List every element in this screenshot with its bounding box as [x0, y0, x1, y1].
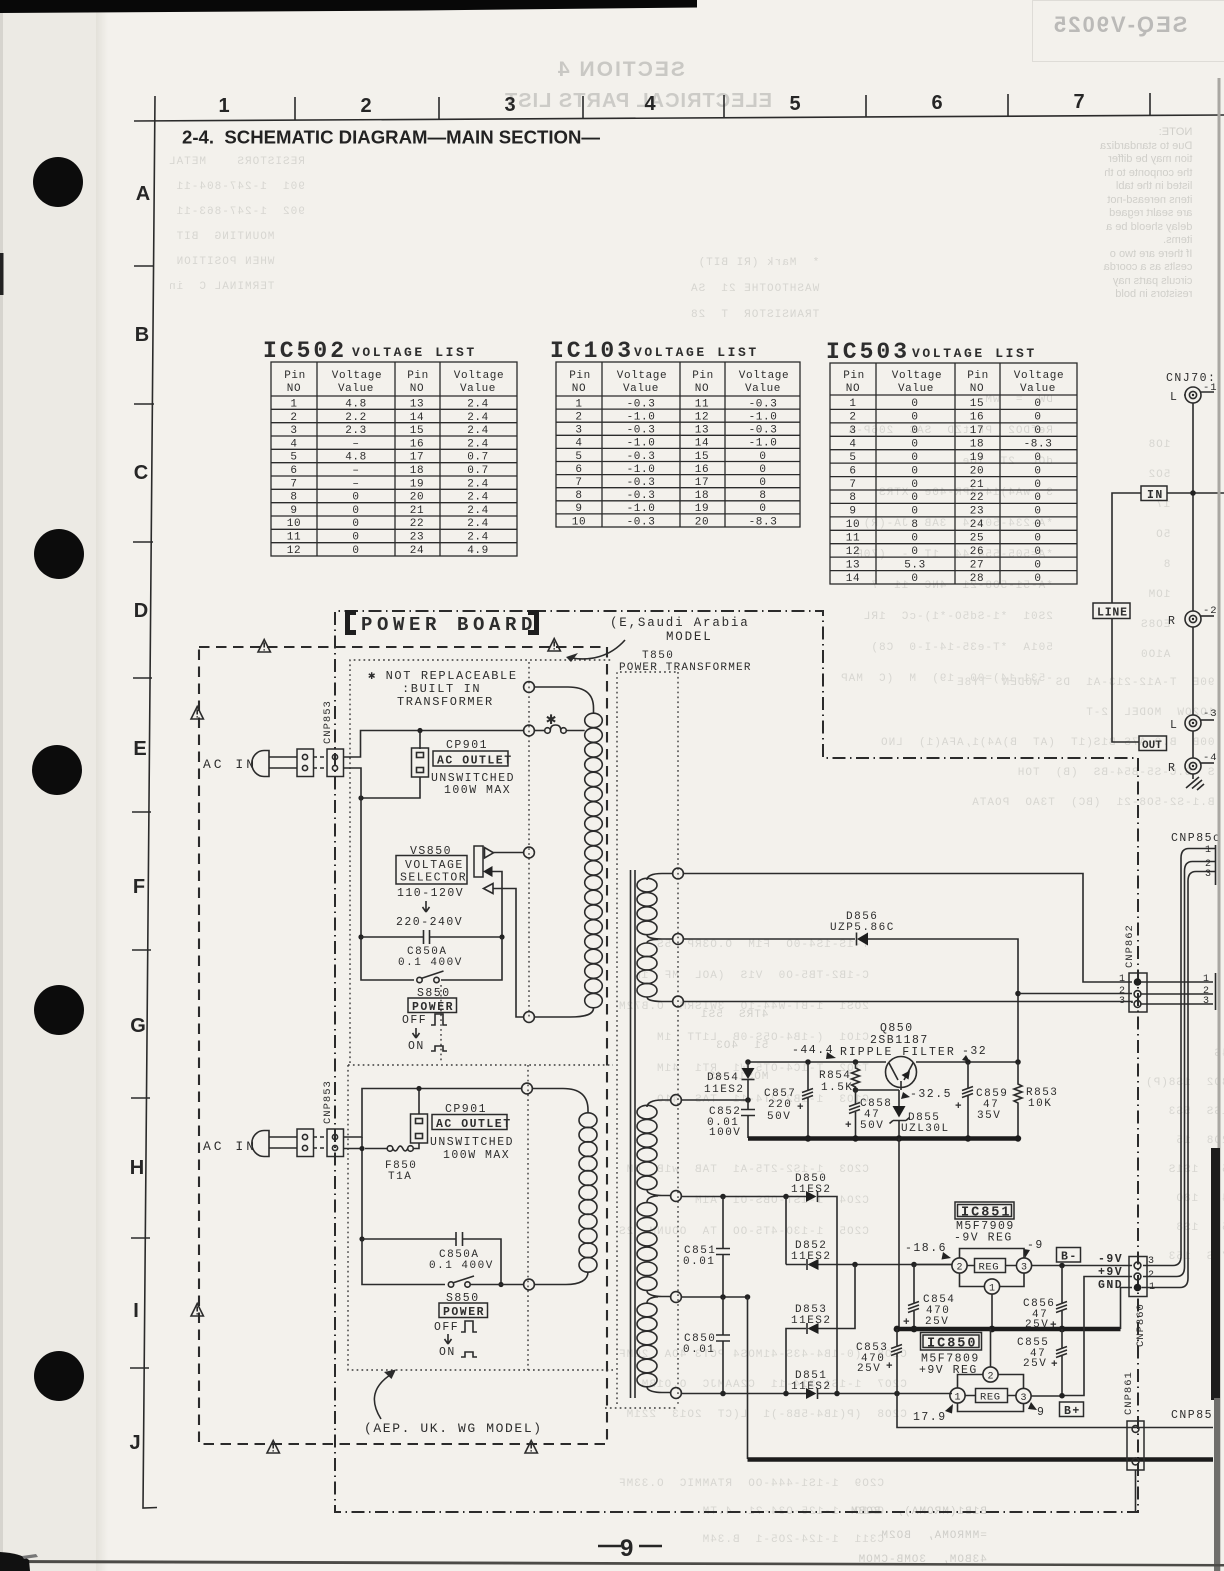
- node junctions on -32 bus: [805, 1135, 811, 1141]
- wire secondary lower tap4 rail (+17.9): [682, 1393, 953, 1395]
- wire centre tap to heavy return: [747, 1297, 749, 1459]
- connector CNP853 upper: [327, 749, 344, 777]
- thermal fuse in primary: [535, 725, 585, 733]
- regulator IC850: [950, 1329, 1031, 1412]
- terminal secondary lower 3: [671, 1292, 682, 1303]
- node OUT box: [1139, 736, 1167, 752]
- wire -44.4 rail: [748, 1061, 1018, 1063]
- node junction C855 bottom: [1059, 1393, 1065, 1399]
- terminal secondary lower 2: [671, 1191, 682, 1202]
- node junction C856 top: [1059, 1263, 1065, 1269]
- outlet CP901 lower: [411, 1114, 428, 1143]
- dotted terminal line secondary: [677, 672, 679, 1404]
- transformer secondary winding lower: [637, 1100, 672, 1393]
- transformer core: [631, 870, 636, 1398]
- dotted terminal line lower primary: [527, 1065, 529, 1370]
- power board dash-dot boundary: [335, 611, 1138, 1512]
- connector CNP853 lower: [327, 1129, 344, 1157]
- node junction on jack bus: [1190, 490, 1196, 496]
- capacitor C852: [707, 1100, 755, 1139]
- zener diode D855: [890, 1106, 910, 1138]
- terminal secondary lower 4: [671, 1388, 682, 1399]
- transformer secondary winding upper: [637, 874, 673, 1002]
- wire gnd riser to CNP860 pin1: [1121, 1288, 1133, 1330]
- resistor R854: [852, 1062, 860, 1090]
- leader arrow to E Saudi box: [572, 640, 625, 659]
- transformer T850 primary winding (E Saudi): [535, 687, 603, 1017]
- node junction centre tap drop: [745, 1294, 751, 1300]
- wire L2 upper: CNP853 pin2 down: [343, 768, 361, 937]
- connector CNP862: [1129, 973, 1147, 1012]
- grid frame left rule: [143, 96, 157, 1508]
- left edge sliver: [0, 253, 4, 295]
- wire L1 lower: CNP853 pin1 up to transformer: [343, 1089, 522, 1138]
- transformer T850 dotted box: [605, 672, 677, 1408]
- switch S850 lower: [448, 1276, 474, 1287]
- node junction -32 corner: [1015, 1059, 1021, 1065]
- terminal secondary upper 2: [673, 934, 684, 945]
- ground bus regulators: [897, 1327, 1121, 1331]
- terminal upper primary 4: [524, 1012, 535, 1023]
- scanner top black strip: [0, 0, 697, 13]
- wire L2 lower with fuse tail: [343, 1137, 387, 1239]
- leader arrow to AEP box: [374, 1375, 390, 1419]
- node junction -32: [965, 1059, 971, 1065]
- AC plug lower: [252, 1131, 297, 1157]
- punch hole 4: [34, 985, 84, 1035]
- arrow -32: [962, 1055, 970, 1062]
- wire secondary centre tap rail: [682, 1296, 749, 1298]
- regulator IC851: [952, 1249, 1032, 1330]
- label AC OUTLET boxed upper: [433, 751, 513, 768]
- transistor Q850: [886, 1057, 917, 1091]
- wire tap to D854 node: [682, 1099, 749, 1101]
- capacitor C856: [1023, 1266, 1067, 1333]
- node junction C850A right upper: [499, 934, 504, 939]
- grid column numbers: [218, 91, 1084, 117]
- bottom page edge: [0, 1560, 1224, 1567]
- outer dashed boundary (AC mains area): [199, 647, 607, 1444]
- node junction fuse branch lower: [359, 1146, 364, 1151]
- E Saudi Arabia model dotted box: [350, 660, 613, 1063]
- arrow 9 out: [1028, 1402, 1037, 1410]
- resistor R853: [1014, 1062, 1022, 1136]
- diode D850: [806, 1191, 818, 1202]
- label POWER boxed lower: [439, 1303, 488, 1319]
- diode D851: [806, 1388, 818, 1399]
- jack R line in: [1168, 605, 1218, 628]
- node junction C850 bottom: [720, 1391, 726, 1397]
- terminal secondary upper 1: [673, 868, 684, 879]
- node junction CP901 return upper: [358, 795, 363, 800]
- capacitor C853: [856, 1329, 902, 1394]
- node junction C853 bottom: [894, 1391, 900, 1397]
- connector CNP850 edge stub: [1215, 845, 1217, 885]
- wire secondary tap1 to CNP862 pin1: [684, 874, 1133, 983]
- node junction C851 top: [720, 1194, 726, 1200]
- ground symbol below jacks: [1186, 777, 1204, 790]
- wire mains link dashes lower: [313, 1137, 327, 1148]
- wire VS850 top contact to terminal 3: [494, 852, 525, 854]
- connector AC receptacle upper: [297, 749, 314, 777]
- selector VS850 wiper: [483, 866, 493, 877]
- grid row ticks: [130, 266, 154, 1368]
- label AC OUTLET boxed lower: [432, 1115, 512, 1132]
- dotted terminal line upper primary: [528, 662, 530, 1017]
- wire +17.9 feed to CNP861: [897, 1394, 1213, 1428]
- ground bus -32 common: [748, 1136, 1020, 1140]
- symbol OFF position lower: [461, 1321, 477, 1332]
- fuse F850: [387, 1143, 419, 1151]
- page right edge line: [1218, 78, 1221, 1571]
- wire L1 upper: CNP853 pin1 to transformer terminal 2: [343, 731, 524, 758]
- node junction D853 join: [852, 1262, 858, 1268]
- node junction C850A left lower: [359, 1236, 364, 1241]
- outlet CP901 upper: [412, 748, 429, 777]
- node junction CP901 feed lower: [416, 1086, 421, 1091]
- wire switch to VS850 path: [441, 937, 502, 980]
- arrow OFF to ON lower: [445, 1334, 452, 1344]
- page right edge dark band: [1211, 1148, 1220, 1400]
- heavy return wire to CNP861 pin2: [748, 1457, 1214, 1461]
- arrow -18.6: [942, 1252, 952, 1260]
- connector CNP852 edge stub: [1215, 973, 1217, 1010]
- node junction C857 top: [805, 1059, 811, 1065]
- IC502 voltage list table: [263, 338, 517, 557]
- capacitor C850: [683, 1297, 730, 1394]
- symbol OFF position upper: [431, 1014, 447, 1025]
- punch hole 2: [34, 529, 84, 579]
- IC103 voltage list table: [550, 338, 800, 528]
- wire CP901 drop upper: [361, 731, 420, 799]
- AC plug upper: [252, 751, 297, 777]
- selector VS850 body: [474, 846, 483, 877]
- wire CP901 drop lower: [418, 1089, 420, 1115]
- wire secondary lower tap1 rail: [682, 1197, 838, 1394]
- connector AC receptacle lower: [297, 1129, 314, 1157]
- wire L2 lower continues to switch: [362, 1239, 445, 1285]
- capacitor C854: [903, 1265, 955, 1330]
- diode D856: [857, 933, 869, 946]
- arrow 17.9: [945, 1404, 953, 1414]
- terminal upper primary 1: [524, 682, 535, 693]
- node junction D853 drop: [783, 1391, 789, 1397]
- wire to CNP862 pin2: [1018, 993, 1132, 995]
- wire base rail: [856, 1090, 900, 1106]
- terminal lower primary 1: [522, 1083, 533, 1094]
- terminal secondary upper 3: [673, 996, 684, 1007]
- capacitor C855: [1017, 1329, 1067, 1396]
- node junction C854 top: [911, 1262, 917, 1268]
- label B- boxed: [1057, 1248, 1081, 1264]
- label VOLTAGE SELECTOR box: [396, 856, 467, 885]
- connector CNP860: [1129, 1257, 1147, 1297]
- punch hole 3: [32, 745, 82, 795]
- wire VS850 wiper to C850A junction: [493, 872, 503, 938]
- arrow voltage change upper: [423, 901, 430, 912]
- wire -18.6 rail: [852, 1264, 952, 1266]
- wire CNP850 pin 1 riser to CNP860 pin 3: [1143, 849, 1215, 1266]
- diode D854: [742, 1062, 755, 1100]
- BLEEDTHROUGH: [556, 58, 685, 82]
- wire CNP861 stub down: [1135, 1470, 1137, 1512]
- wire CNP850 pin 3 riser to CNP860 pin 1: [1142, 872, 1216, 1288]
- node junction CNP862 pin2 branch: [1015, 991, 1021, 997]
- wire jack bus vertical: [1192, 403, 1194, 779]
- node junction D850 join: [834, 1391, 840, 1397]
- node LINE box: [1093, 603, 1130, 620]
- node junction CP901 feed upper: [417, 728, 422, 733]
- page number 9: [598, 1535, 662, 1562]
- wire CNP850 pin 2 riser to CNP860 pin 2: [1143, 862, 1215, 1277]
- wire switch to terminal lower: [470, 1284, 524, 1286]
- node junction C850A left upper: [358, 934, 363, 939]
- bottom left corner blob: [0, 1552, 30, 1571]
- wire D852 branch drop: [785, 1197, 787, 1265]
- arrow -32.5: [901, 1092, 910, 1099]
- selector VS850 contact 110-120: [485, 848, 494, 859]
- AEP UK WG model dotted box: [348, 1065, 613, 1370]
- terminal secondary lower 1: [671, 1095, 682, 1106]
- label POWER boxed upper: [408, 998, 457, 1014]
- label IC850 boxed: [921, 1333, 982, 1352]
- symbol ON position upper: [431, 1046, 447, 1051]
- diode D853: [786, 1323, 819, 1394]
- selector VS850 contact 220-240: [484, 884, 494, 894]
- wire secondary tap3 to CNP862 pin3: [684, 1002, 1133, 1004]
- capacitor C859: [955, 1062, 1008, 1138]
- arrow OFF to ON upper: [413, 1028, 420, 1038]
- node IN box: [1141, 486, 1167, 502]
- wire CNP862 outputs to edge stub: [1141, 982, 1213, 1004]
- power board title brackets: [345, 610, 539, 635]
- jack L line out: [1170, 708, 1218, 732]
- node junction D854 bottom: [745, 1097, 751, 1103]
- punch hole 1: [33, 157, 83, 207]
- node junction D854 top: [745, 1059, 751, 1065]
- label IC851 boxed: [955, 1202, 1014, 1221]
- wire -32 feed down: [1017, 996, 1019, 1062]
- terminal upper primary 2: [524, 725, 535, 736]
- connector CNP861: [1127, 1421, 1144, 1470]
- wire -9V to CNP860 pin3: [1032, 1265, 1132, 1267]
- jack L line in: [1170, 382, 1218, 404]
- capacitor C850A lower: [362, 1232, 501, 1285]
- node junction R854 top: [853, 1059, 859, 1065]
- node junctions on gnd bus: [894, 1326, 901, 1333]
- wire secondary tap2 through D856: [684, 939, 1019, 991]
- capacitor C858: [845, 1090, 892, 1138]
- node junction R854 bottom / base: [853, 1087, 859, 1093]
- grid column ticks: [295, 93, 1150, 120]
- dotted switch link upper S850: [440, 985, 442, 1062]
- terminal lower primary 2: [524, 1279, 535, 1290]
- terminal upper primary 3: [524, 847, 535, 858]
- wire IN feed: [1112, 493, 1224, 742]
- punch hole 5: [34, 1351, 84, 1401]
- grid row letters: [129, 183, 150, 1454]
- wire common bus drop to lower gnd: [898, 1139, 900, 1330]
- arrow -44.4: [826, 1052, 836, 1059]
- capacitor C851: [683, 1197, 730, 1298]
- OVERLAYS: [0, 0, 96, 1571]
- grid frame top rule: [134, 115, 1224, 121]
- wire L2 continues to switch: [361, 937, 414, 980]
- node junction switch right lower: [498, 1282, 503, 1287]
- switch S850 upper: [417, 971, 444, 983]
- wire VS850 low contact to lower terminal: [493, 889, 524, 1018]
- wire -18.6 into IC851 pin2: [914, 1264, 952, 1266]
- IC503 voltage list table: [826, 339, 1077, 585]
- wire +9V to CNP860 pin2: [1031, 1277, 1132, 1397]
- symbol ON position lower: [461, 1352, 477, 1357]
- diode D852: [786, 1259, 852, 1270]
- transformer T850 primary winding (AEP): [532, 1089, 597, 1285]
- wire D853 riser: [819, 1265, 856, 1329]
- node junction C851 bottom: [720, 1294, 726, 1300]
- capacitor C857: [764, 1062, 813, 1138]
- arrow -9: [1024, 1249, 1031, 1258]
- capacitor C850A upper: [361, 930, 502, 944]
- label B+ boxed: [1060, 1402, 1084, 1418]
- node junction D852 branch: [783, 1194, 789, 1200]
- jack R line out: [1168, 752, 1218, 775]
- wire mains link dashes upper: [313, 757, 327, 768]
